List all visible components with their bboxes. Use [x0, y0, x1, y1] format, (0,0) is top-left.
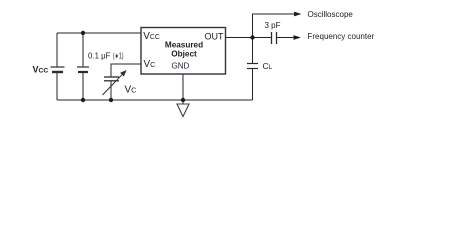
- wire GND pin to ground rail: [182, 74, 184, 104]
- arrow to oscilloscope: [294, 12, 302, 17]
- svg-text:Object: Object: [171, 49, 197, 58]
- svg-text:Measured: Measured: [165, 41, 203, 50]
- svg-text:Oscilloscope: Oscilloscope: [308, 10, 354, 19]
- capacitor C3 3pF coupling: [272, 32, 277, 44]
- svg-text:VC: VC: [144, 59, 156, 70]
- wire bottom ground rail: [57, 99, 253, 101]
- svg-text:VC: VC: [125, 85, 137, 96]
- svg-text:0.1 μF: 0.1 μF: [88, 52, 111, 61]
- wire OUT lead: [226, 37, 253, 39]
- svg-text:3 pF: 3 pF: [265, 21, 281, 30]
- svg-text:Frequency counter: Frequency counter: [308, 32, 375, 41]
- wire CL branch vertical: [252, 38, 254, 101]
- capacitor CL load: [247, 64, 258, 69]
- variable capacitor VC (trimmer with arrow): [103, 75, 123, 95]
- wire top supply rail: [57, 32, 141, 34]
- wire VC lead (varicap top to VC pin): [111, 64, 141, 77]
- node junction rail / GND: [181, 98, 185, 102]
- node junction rail / C2 bottom: [81, 98, 85, 102]
- svg-text:VCC: VCC: [33, 65, 49, 75]
- wire second branch vertical (to C2): [82, 33, 84, 100]
- wire left branch vertical (to C1): [56, 33, 58, 100]
- wire riser to oscilloscope branch: [253, 14, 295, 38]
- arrow to frequency counter: [294, 35, 302, 40]
- ground symbol: [177, 104, 189, 117]
- node junction OUT: [250, 35, 254, 39]
- IC U1 Measured Object box: [141, 28, 226, 75]
- capacitor C1 (electrolytic, left of Vcc label): [51, 67, 65, 72]
- svg-text:OUT: OUT: [205, 32, 225, 42]
- wire varicap bottom lead: [110, 81, 112, 100]
- svg-text:(∗1): (∗1): [113, 52, 124, 61]
- svg-text:CL: CL: [263, 61, 273, 71]
- capacitor C2 0.1uF bypass: [77, 67, 89, 72]
- svg-text:GND: GND: [172, 62, 190, 71]
- node junction rail / varicap: [109, 98, 113, 102]
- node junction top rail / C2: [81, 31, 85, 35]
- wire frequency-counter branch: [253, 37, 294, 39]
